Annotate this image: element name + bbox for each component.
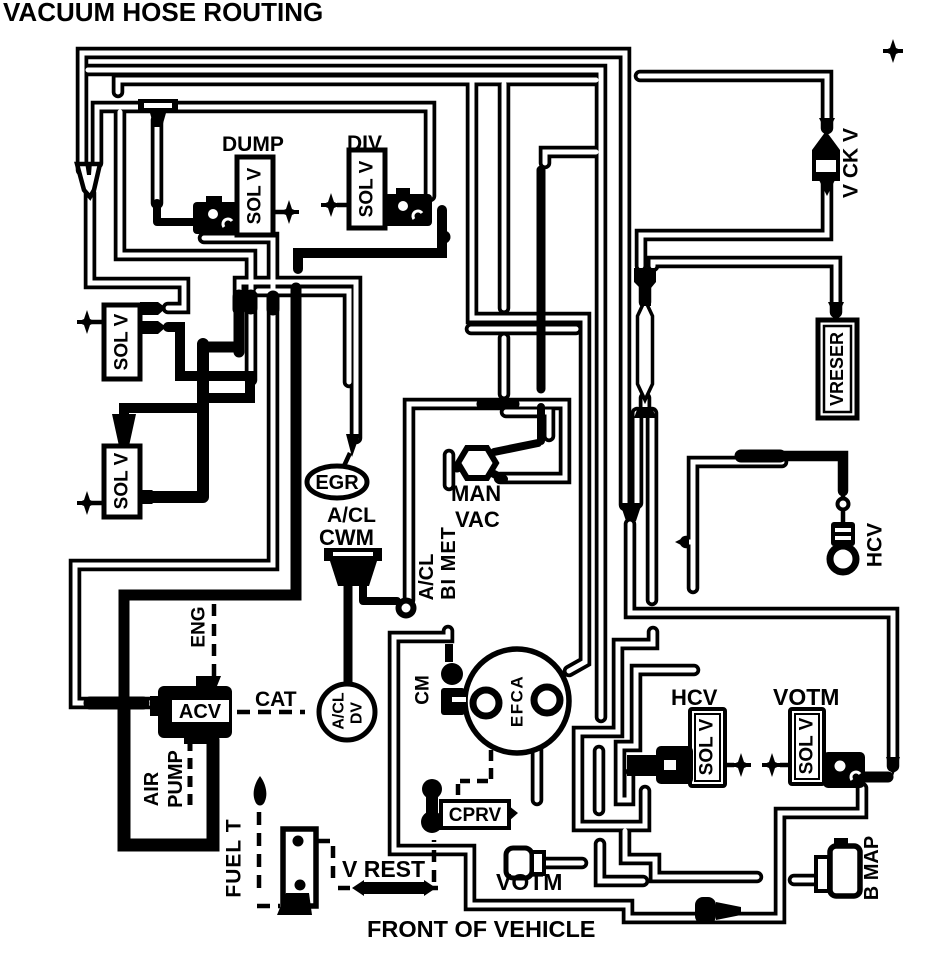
coupler on HCV feed hose [741,450,780,463]
wire solid cross plug below hose to hex [490,407,541,479]
svg-text:CWM: CWM [319,525,374,550]
B MAP sensor [816,838,860,896]
svg-text:VAC: VAC [455,507,500,532]
wire solid DIV valve output [298,210,442,269]
wire solid link bar to lower SOL V nipple [124,408,200,414]
CM valve [441,644,466,715]
svg-text:A/CL: A/CL [416,554,438,601]
svg-text:VRESER: VRESER [827,332,847,406]
hose outlines (black) [75,53,893,918]
VRESER box [818,320,857,418]
solenoid DUMP SOL V box [237,157,273,235]
taper connector joining two left hoses [77,162,100,197]
T-fitting top left [138,99,178,127]
arrow taper at right loop hose end [886,757,900,776]
valve body HCV solenoid [627,746,693,784]
coupler on V251 hose [245,296,258,308]
svg-text:ENG: ENG [189,606,210,647]
plus vent DUMP [273,210,290,215]
svg-text:EFCA: EFCA [508,675,527,727]
svg-text:ACV: ACV [179,701,222,723]
valve body DIV [384,188,432,226]
svg-text:AIR: AIR [141,771,163,806]
svg-text:CM: CM [413,675,434,705]
svg-text:MAN: MAN [451,481,501,506]
svg-text:V REST: V REST [342,856,425,882]
svg-text:SOL V: SOL V [112,452,133,509]
A/CL BI MET pivot ring [399,601,414,616]
svg-text:BI MET: BI MET [438,526,460,600]
bullet coupler on bottom hose [695,897,741,924]
svg-text:A/CL: A/CL [331,692,348,730]
ENG connector atop ACV [197,676,221,691]
EGR riser thin stem [344,453,350,466]
svg-text:SOL V: SOL V [245,167,266,224]
splitter fitting above the two drop hoses [634,407,656,418]
wire solid DUMP valve feed stub [157,203,196,222]
solenoid left SOL V upper box [104,305,140,379]
plus vent VOTM solenoid [780,763,791,768]
dashed FUEL T leader [257,812,280,906]
svg-text:SOL V: SOL V [697,718,718,775]
dashed EFCA-CPRV leader [458,750,491,799]
check valve V CK V [812,118,840,196]
svg-text:DUMP: DUMP [222,133,284,156]
svg-text:CAT: CAT [255,688,297,711]
wire solid CM valve stub to EFCA [455,702,466,710]
svg-text:EGR: EGR [315,472,359,494]
EGR oval [307,466,367,498]
wire solid CAT line loop [124,288,296,697]
plus vent HCV [725,763,734,768]
port bullet upper SOL V port1 [140,302,166,315]
dashed ENG leader [212,604,217,676]
svg-text:VACUUM HOSE ROUTING: VACUUM HOSE ROUTING [3,0,323,27]
plus mark top right [883,39,903,63]
ACV valve assembly [150,676,232,744]
wire solid DUMP valve down-feed to bar [206,295,239,352]
svg-text:HCV: HCV [864,523,887,567]
solenoid left SOL V lower box [104,446,140,517]
junction dot DIV output [438,231,451,244]
nipple into lower SOL V [112,414,136,446]
svg-text:SOL V: SOL V [112,313,133,370]
svg-text:B MAP: B MAP [861,836,883,900]
solid junction segment on H404 [482,399,514,410]
VRESER arrow taper [828,302,844,320]
wire solid Z-link from SOL V port2 [168,327,250,398]
A/CL DV circle [319,684,375,740]
wire solid riser above MAN VAC [537,170,546,389]
CPRV valve body [421,779,443,833]
valve body VOTM solenoid [823,752,865,788]
CPRV label box [441,801,518,828]
VOTM plug (bottom) [506,848,544,878]
svg-text:FRONT OF VEHICLE: FRONT OF VEHICLE [367,916,595,942]
wire solid HCV feed right half [778,456,843,491]
dashed AIR PUMP leader [188,740,193,806]
EGR riser taper tip [346,434,360,457]
svg-text:HCV: HCV [671,685,718,710]
svg-text:VOTM: VOTM [773,684,839,710]
V REST bracket plate [277,829,316,915]
wire solid HCV thin stem upper [841,491,846,499]
plus vent left SOL V lower [92,501,106,506]
wire solid CWM right appendage to ring [363,572,397,601]
hose cores (white) [75,53,893,918]
coupler joining check valve and VRESER hoses [634,268,656,306]
wire solid CWM stem to A/CL DV [344,585,353,688]
plus vent DIV [337,203,350,208]
svg-text:VOTM: VOTM [496,869,562,895]
svg-text:CPRV: CPRV [449,805,502,826]
Y coupler fitting [620,503,642,521]
dashed CAT leader [237,710,305,715]
svg-text:FUEL T: FUEL T [223,818,246,897]
EFCA circle [465,649,569,753]
FUEL T teardrop [254,776,267,806]
coupler on ACV feed hose [90,697,143,710]
plus vent left SOL V upper [92,320,106,325]
port bullet upper SOL V port2 [140,321,166,334]
MAN VAC hex port [458,448,496,478]
wire solid HCV thin stem lower [841,510,846,522]
svg-text:A/CL: A/CL [327,504,376,527]
wire solid VOTM valve stub to arrow [864,772,888,783]
svg-text:V CK V: V CK V [840,128,863,198]
HCV heater valve bulb [830,499,856,573]
svg-text:PUMP: PUMP [165,750,187,808]
coupler on V239 hose [233,297,246,309]
wire solid vertical bar to lower SOL V [152,344,203,497]
arrow tip pointing at HCV branch [675,535,689,549]
svg-text:SOL V: SOL V [797,717,818,774]
wire solid AIR PUMP U loop [124,707,213,845]
solenoid HCV SOL V box [690,709,725,786]
junction dot left of hex [452,462,463,473]
A/CL CWM motor [324,548,382,586]
dashed V REST circuit [318,840,438,888]
solenoid VOTM SOL V box [790,709,824,784]
solenoid DIV SOL V box [349,150,385,228]
inline connector outlined capsule [638,300,653,400]
V REST bullet connector [352,880,436,896]
valve body DUMP [193,196,238,234]
svg-text:SOL V: SOL V [357,160,378,217]
port bullet lower SOL V [140,490,160,504]
coupler on V273 hose [267,297,280,309]
svg-text:DV: DV [349,702,366,725]
